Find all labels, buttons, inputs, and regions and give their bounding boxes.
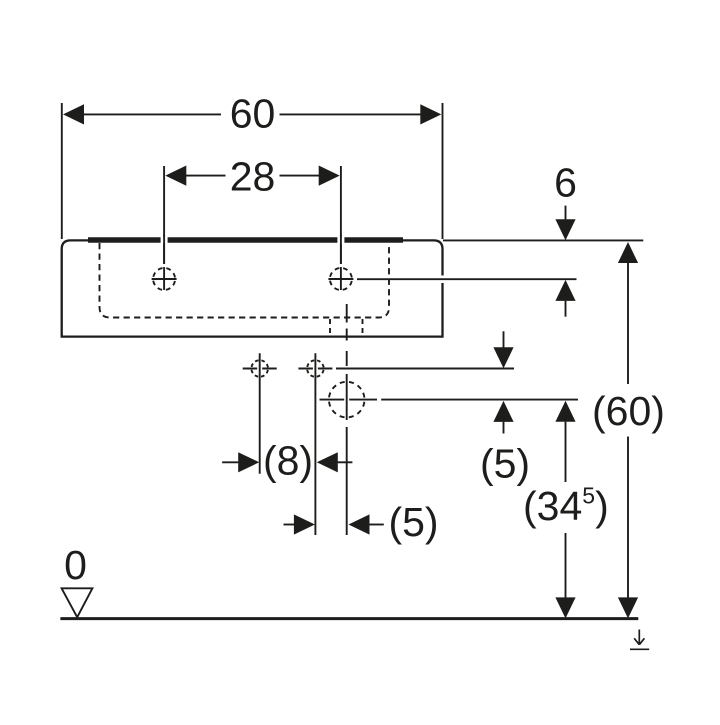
dim 5 lower shaft left (284, 524, 295, 526)
drain circle (329, 382, 365, 418)
tap hole left circle (153, 268, 175, 290)
dim 60r arrow up (618, 242, 638, 263)
dim 60r arrow down (618, 597, 638, 618)
tap hole leader line (357, 278, 577, 280)
tap hole right crosshair h (328, 278, 353, 280)
svg-text:(5): (5) (480, 441, 530, 487)
dim 5 lower shaft right (369, 524, 384, 526)
dim 28 line right segment (280, 175, 320, 177)
fixing hole left crosshair h (243, 368, 277, 370)
fixing hole right crosshair h (298, 368, 332, 370)
dim 60 arrow right (420, 104, 441, 124)
bowl dashed outline (100, 243, 390, 318)
dim 28 arrow left (165, 166, 186, 186)
dim 6 arrow down (555, 219, 575, 240)
fixing hole leader line (336, 368, 514, 370)
drain center line (346, 304, 348, 535)
fixing hole right center line (314, 353, 316, 535)
dim 28 ext line right (340, 166, 342, 264)
dim 28 ext over rim left (163, 235, 165, 264)
svg-text:(60): (60) (592, 388, 665, 434)
basin rim thick line (88, 237, 403, 242)
dim 5 lower arrow right-pointing (294, 514, 315, 534)
dim 60 line right segment (280, 113, 422, 115)
drain leader line (381, 399, 578, 401)
dim 34.5 shaft lower (565, 533, 567, 598)
dim 6 shaft bottom (565, 301, 567, 317)
drain crosshair h (320, 399, 378, 401)
svg-text:28: 28 (230, 154, 276, 200)
fixing hole left white gap (257, 365, 262, 373)
basin top leader line (443, 239, 643, 241)
svg-text:0: 0 (64, 542, 87, 588)
svg-text:(345): (345) (523, 483, 609, 529)
tap hole right crosshair v (340, 267, 342, 290)
drain recess dashed left (329, 319, 331, 335)
fixing hole left center line (259, 353, 261, 474)
fixing hole left circle (251, 360, 268, 377)
fixing hole right white gap (313, 365, 318, 373)
floor symbol underline (630, 648, 649, 650)
tap hole left crosshair v (163, 267, 165, 290)
svg-text:60: 60 (230, 91, 276, 137)
dim 34.5 arrow down (555, 597, 575, 618)
rim white break left (161, 237, 168, 244)
dim 34.5 shaft upper (565, 422, 567, 482)
svg-text:6: 6 (554, 160, 577, 206)
dim 60r shaft lower (627, 437, 629, 598)
drain crosshair white gap (344, 396, 349, 404)
dim 8 shaft left (222, 461, 238, 463)
tap hole right circle (330, 268, 352, 290)
dim 34.5 arrow up (555, 401, 575, 422)
dim 28 ext over rim right (340, 235, 342, 264)
dim 5 upper shaft top (503, 331, 505, 347)
dim 5 upper arrow down (493, 347, 513, 368)
tap hole leader white halo at basin edge (438, 275, 448, 283)
dim 8 arrow left-pointing (317, 452, 338, 472)
dim 5 upper arrow up (493, 401, 513, 422)
rim white break right (337, 237, 344, 244)
floor symbol arrow (634, 630, 644, 645)
basin outline (62, 240, 443, 336)
datum triangle (62, 588, 93, 617)
dim 6 arrow up (555, 280, 575, 301)
svg-text:(5): (5) (388, 499, 438, 545)
dim 60 line left segment (84, 113, 222, 115)
dim 5 lower arrow left-pointing (349, 514, 370, 534)
dim 28 ext line left (163, 166, 165, 264)
floor line (60, 617, 638, 620)
dim 6 shaft top (565, 206, 567, 220)
dim 60 ext line left (61, 103, 63, 239)
dim 60 arrow left (63, 104, 84, 124)
fixing hole right circle (307, 360, 324, 377)
dim 28 arrow right (319, 166, 340, 186)
dim 8 shaft right (338, 461, 353, 463)
tap hole left crosshair h (152, 278, 177, 280)
dim 60r shaft upper (627, 263, 629, 384)
dim 28 line left segment (186, 175, 226, 177)
svg-text:(8): (8) (263, 437, 313, 483)
dim 5 upper shaft bottom (503, 422, 505, 434)
dim 60 ext line right (442, 103, 444, 239)
dim 8 arrow right-pointing (238, 452, 259, 472)
drain recess dashed right (362, 319, 364, 335)
